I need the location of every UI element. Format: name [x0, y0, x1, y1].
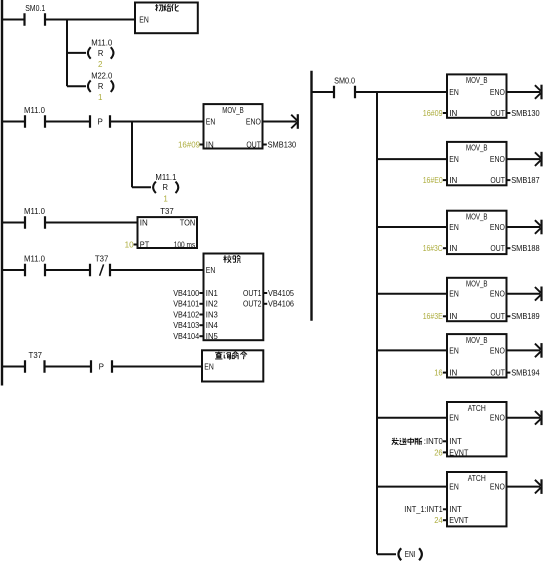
svg-text:100 ms: 100 ms [174, 240, 196, 249]
wire spine to ENI coil [377, 553, 396, 555]
arrow ENO box 4 [507, 287, 542, 302]
wire spine to MOV_B 3 [377, 226, 448, 228]
svg-text:VB4106: VB4106 [268, 300, 295, 309]
wire P to query box [112, 366, 203, 368]
wire rung5 rail to contact [3, 366, 25, 368]
svg-text:IN: IN [449, 176, 457, 185]
contact P rung2 [90, 115, 110, 128]
wire SM0.0 to spine [355, 91, 377, 93]
arrow ENO box 2 [507, 152, 542, 167]
value 26 EVNT [434, 448, 443, 457]
contact M11.0 rung2 [24, 106, 46, 128]
svg-text:INT: INT [449, 505, 462, 514]
svg-text:OUT: OUT [490, 312, 505, 321]
svg-text:IN: IN [449, 369, 457, 378]
svg-text:SMB194: SMB194 [511, 369, 540, 378]
svg-text:R: R [98, 82, 104, 91]
svg-text:EN: EN [449, 155, 459, 164]
wire spine to MOV_B 4 [377, 293, 448, 295]
wire spine to ATCH 2 [377, 486, 448, 488]
wire spine to MOV_B 1 [377, 91, 448, 93]
svg-text:EVNT: EVNT [449, 516, 468, 525]
tick INT ATCH 1 [443, 440, 447, 442]
label T37 above TON [160, 207, 174, 216]
tick out box 5 [507, 372, 511, 374]
svg-text:ENI: ENI [405, 550, 416, 559]
coil M11.1 (R) [153, 173, 178, 193]
svg-text:M11.0: M11.0 [24, 106, 46, 115]
output OUT1 row [243, 289, 295, 298]
svg-text:PT: PT [140, 240, 150, 249]
svg-text:OUT: OUT [246, 140, 261, 149]
svg-text:VB4102: VB4102 [173, 310, 200, 319]
wire to coil M11.1 [132, 186, 151, 188]
value 16#E0 box 2 [423, 176, 443, 185]
arrow ENO box 3 [507, 220, 542, 235]
svg-text:EN: EN [204, 362, 214, 371]
wire branch drop to M11.1 [131, 122, 133, 188]
contact M11.0 rung4 [24, 255, 46, 277]
box ATCH 1 [447, 402, 507, 457]
svg-text:ENO: ENO [246, 117, 261, 126]
svg-text:M11.0: M11.0 [91, 38, 113, 47]
svg-text:MOV_B: MOV_B [466, 280, 488, 289]
svg-text:SMB187: SMB187 [511, 176, 540, 185]
svg-text:MOV_B: MOV_B [466, 336, 488, 345]
tick out box 4 [507, 315, 511, 317]
svg-text:IN4: IN4 [206, 321, 219, 330]
svg-text:M22.0: M22.0 [91, 72, 113, 81]
svg-text:P: P [98, 117, 103, 126]
svg-text:P: P [99, 362, 104, 371]
wire spine to MOV_B 2 [377, 158, 448, 160]
arrow ENO box 5 [507, 343, 542, 358]
svg-text:ENO: ENO [490, 290, 505, 299]
arrow ENO left [263, 114, 299, 129]
svg-text:ENO: ENO [490, 223, 505, 232]
svg-text:R: R [98, 49, 104, 58]
contact SM0.1 [25, 4, 46, 26]
svg-text:VB4104: VB4104 [173, 332, 200, 341]
svg-text:EN: EN [206, 117, 216, 126]
svg-text:EVNT: EVNT [449, 448, 468, 457]
contact M11.0 rung3 [24, 207, 46, 229]
box 校验 U-check [204, 254, 264, 342]
value 24 EVNT [434, 516, 443, 525]
svg-text:MOV_B: MOV_B [466, 213, 488, 222]
svg-text:IN: IN [140, 218, 148, 227]
label SMB187 [511, 176, 540, 185]
tick out box 1 [507, 112, 511, 114]
svg-text:SMB189: SMB189 [511, 312, 540, 321]
arrow ENO ATCH 2 [507, 479, 542, 494]
wire right rail to SM0.0 [312, 91, 335, 93]
svg-text:16#09: 16#09 [178, 140, 201, 149]
wire T37 to check box [110, 269, 204, 271]
svg-text:26: 26 [434, 448, 443, 457]
svg-text:INT_1:INT1: INT_1:INT1 [404, 505, 443, 514]
tick EVNT ATCH 2 [443, 519, 447, 521]
svg-text:MOV_B: MOV_B [466, 76, 488, 85]
tick value box 5 [443, 372, 447, 374]
input INT_1:INT1 [404, 505, 443, 514]
svg-text:INT: INT [449, 437, 462, 446]
label SMB194 [511, 369, 540, 378]
svg-text:M11.0: M11.0 [24, 255, 46, 264]
coil M11.0 (R) [88, 38, 114, 58]
svg-text:ENO: ENO [490, 155, 505, 164]
svg-text:1: 1 [163, 194, 168, 203]
wire contact to P rung5 [45, 366, 92, 368]
svg-text:T37: T37 [160, 207, 174, 216]
wire contact to init box [45, 19, 136, 21]
svg-text:ENO: ENO [490, 88, 505, 97]
svg-text:OUT: OUT [490, 369, 505, 378]
svg-text:IN: IN [206, 140, 214, 149]
value 2 below coil [98, 60, 103, 69]
svg-text:OUT: OUT [490, 176, 505, 185]
tick OUT left [263, 144, 267, 146]
tick out box 2 [507, 179, 511, 181]
input VB4101 row [173, 300, 203, 309]
svg-text:OUT: OUT [490, 244, 505, 253]
box MOV_B right 3 [447, 211, 507, 254]
spine vertical right [376, 92, 378, 554]
svg-text:EN: EN [449, 414, 459, 423]
svg-text:EN: EN [449, 346, 459, 355]
svg-text:SMB188: SMB188 [511, 244, 540, 253]
wire to coil M11.0 [67, 52, 86, 54]
wire contact to TON box [45, 222, 138, 224]
svg-text:IN: IN [449, 312, 457, 321]
box MOV_B left U2 [204, 104, 263, 149]
svg-text:ATCH: ATCH [468, 404, 486, 413]
svg-text:VB4100: VB4100 [173, 289, 200, 298]
contact T37 negated [90, 255, 110, 277]
svg-text:M11.0: M11.0 [24, 207, 46, 216]
wire spine to MOV_B 5 [377, 349, 448, 351]
wire contact to T37 contact [45, 269, 90, 271]
tick value box 3 [443, 247, 447, 249]
label SMB130 left [268, 140, 297, 149]
wire contact to P rung2 [45, 121, 90, 123]
svg-text:16#E0: 16#E0 [423, 176, 443, 185]
coil ENI [398, 548, 421, 560]
label SMB189 [511, 312, 540, 321]
svg-text:VB4105: VB4105 [268, 289, 295, 298]
label SMB188 [511, 244, 540, 253]
arrow ENO ATCH 1 [507, 411, 542, 426]
value 16#09 box 1 [423, 109, 443, 118]
tick out box 3 [507, 247, 511, 249]
tick 16#09 to IN [200, 144, 204, 146]
svg-text:MOV_B: MOV_B [222, 106, 244, 115]
svg-text:IN5: IN5 [206, 332, 219, 341]
svg-text::INT0: :INT0 [424, 437, 444, 446]
svg-text:ATCH: ATCH [468, 474, 486, 483]
contact T37 rung5 [25, 351, 45, 373]
svg-text:T37: T37 [29, 351, 43, 360]
value 16 box 5 [434, 369, 443, 378]
tick 10 to PT [134, 244, 138, 246]
svg-text:16#09: 16#09 [423, 109, 443, 118]
value 16#09 left [178, 140, 201, 149]
svg-text:EN: EN [449, 88, 459, 97]
svg-text:EN: EN [449, 483, 459, 492]
wire spine to ATCH 1 [377, 417, 448, 419]
tick EVNT ATCH 1 [443, 451, 447, 453]
svg-text:ENO: ENO [490, 483, 505, 492]
svg-text:16#3E: 16#3E [423, 312, 443, 321]
svg-text:SMB130: SMB130 [268, 140, 297, 149]
svg-text:EN: EN [139, 15, 149, 24]
svg-text:OUT: OUT [490, 109, 505, 118]
svg-text:10: 10 [125, 240, 135, 249]
svg-text:EN: EN [206, 266, 216, 275]
input VB4104 row [173, 332, 203, 341]
svg-text:EN: EN [449, 290, 459, 299]
label SMB130 [511, 109, 540, 118]
wire to coil M22.0 [67, 85, 86, 87]
wire rung1 rail to contact [3, 19, 25, 21]
input VB4103 row [173, 321, 203, 330]
wire P to MOV_B box [110, 121, 204, 123]
svg-text:IN3: IN3 [206, 310, 219, 319]
value 16#3C box 3 [423, 244, 443, 253]
svg-text:SM0.1: SM0.1 [25, 4, 45, 13]
svg-text:SM0.0: SM0.0 [334, 77, 355, 86]
svg-text:IN: IN [449, 244, 457, 253]
svg-text:24: 24 [434, 516, 443, 525]
box MOV_B right 1 [447, 74, 507, 118]
right network power rail [310, 71, 312, 321]
svg-text:TON: TON [180, 218, 196, 227]
svg-text:R: R [163, 183, 169, 192]
svg-text:IN: IN [449, 109, 457, 118]
box MOV_B right 4 [447, 278, 507, 321]
svg-text:T37: T37 [95, 255, 109, 264]
input 发送中断:INT0 [392, 437, 444, 446]
svg-text:M11.1: M11.1 [155, 173, 177, 182]
value 1 below coil M11.1 [163, 194, 168, 203]
box MOV_B right 5 [447, 334, 507, 377]
input VB4100 row [173, 289, 203, 298]
wire branch drop rung1 [66, 20, 68, 87]
svg-text:ENO: ENO [490, 414, 505, 423]
output OUT2 row [243, 300, 295, 309]
svg-text:IN2: IN2 [206, 300, 219, 309]
svg-text:OUT2: OUT2 [243, 300, 262, 309]
box 初始化 U-init [135, 3, 198, 34]
svg-text:OUT1: OUT1 [243, 289, 262, 298]
contact P rung5 [91, 360, 112, 373]
box timer T37 TON [138, 217, 198, 249]
svg-text:IN1: IN1 [206, 289, 219, 298]
svg-text:ENO: ENO [490, 346, 505, 355]
tick value box 2 [443, 179, 447, 181]
tick value box 4 [443, 315, 447, 317]
svg-text:16: 16 [434, 369, 443, 378]
tick INT ATCH 2 [443, 508, 447, 510]
arrow ENO box 1 [507, 85, 542, 100]
wire rung3 rail to contact [3, 222, 25, 224]
svg-text:2: 2 [98, 60, 103, 69]
box MOV_B right 2 [447, 142, 507, 185]
wire rung4 rail to contact [3, 269, 25, 271]
tick value box 1 [443, 112, 447, 114]
svg-text:16#3C: 16#3C [423, 244, 443, 253]
value 1 below coil [98, 93, 103, 102]
svg-text:1: 1 [98, 93, 103, 102]
svg-text:EN: EN [449, 223, 459, 232]
input VB4102 row [173, 310, 203, 319]
left power rail [1, 0, 3, 386]
contact SM0.0 [334, 77, 356, 99]
value 16#3E box 4 [423, 312, 443, 321]
svg-text:SMB130: SMB130 [511, 109, 540, 118]
box 查询命令 U-query [202, 350, 263, 381]
wire rung2 rail to contact [3, 121, 25, 123]
svg-text:MOV_B: MOV_B [466, 144, 488, 153]
svg-text:VB4101: VB4101 [173, 300, 200, 309]
box ATCH 2 [447, 472, 507, 526]
value 10 PT [125, 240, 135, 249]
coil M22.0 (R) [88, 72, 114, 92]
svg-text:VB4103: VB4103 [173, 321, 200, 330]
